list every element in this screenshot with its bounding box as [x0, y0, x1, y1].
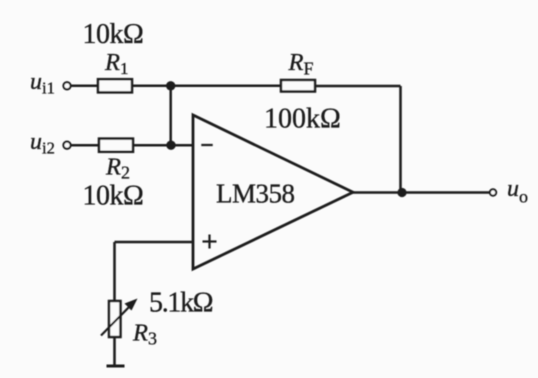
svg-text:R1: R1	[104, 49, 128, 78]
svg-text:10kΩ: 10kΩ	[83, 19, 144, 50]
svg-text:5.1kΩ: 5.1kΩ	[149, 288, 213, 319]
svg-text:R2: R2	[105, 153, 130, 182]
svg-text:100kΩ: 100kΩ	[264, 104, 341, 135]
svg-text:10kΩ: 10kΩ	[83, 181, 144, 212]
svg-text:ui2: ui2	[30, 129, 55, 158]
svg-text:LM358: LM358	[216, 178, 295, 208]
svg-text:RF: RF	[288, 49, 314, 79]
svg-text:uo: uo	[507, 176, 528, 206]
svg-text:R3: R3	[132, 319, 157, 348]
svg-text:ui1: ui1	[30, 69, 55, 98]
